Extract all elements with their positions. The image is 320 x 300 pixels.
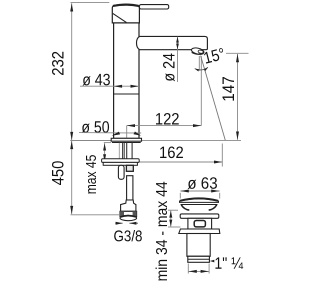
svg-text:min 34 - max 44: min 34 - max 44 [154,181,171,281]
dimension 147 line [236,54,239,140]
angle vertical reference [198,56,200,71]
dimension min34max44 line [169,211,172,227]
dimension 450 line [70,141,73,214]
G3/8 nut [120,211,137,220]
mounting nut [126,165,133,171]
lever handle bar [139,5,168,9]
lever joint diagonal [113,13,127,22]
dimension 1 1/4 extension lines [188,264,209,274]
dimension o43 leader and arrows [80,85,139,88]
dimension 1 1/4 line [188,270,209,273]
angle arc [195,67,208,71]
svg-text:122: 122 [155,110,180,128]
spout [137,36,208,49]
aerator extension line [200,56,202,126]
dimension 147 extension line [226,52,249,54]
hose connector collar [121,200,136,211]
dimension min34max44 extension lines [168,210,180,227]
drain lock nut [179,229,220,234]
drain tube [187,234,210,263]
G3/8 arrows [115,222,138,225]
faucet head cap [112,4,139,23]
dimension 122 line [127,124,202,127]
hose segment right [127,176,133,200]
drain body [188,218,212,229]
drain dome [180,198,219,204]
dimension 162 extension line right [221,144,223,167]
svg-text:ø 50: ø 50 [81,119,109,137]
base plate [111,138,141,142]
hose segment left [118,165,124,179]
svg-text:450: 450 [50,161,68,186]
deck line left [70,140,111,142]
dimension o50 leader and arrows [79,132,141,136]
svg-text:232: 232 [49,51,67,76]
dimension 450 extension line bottom [71,214,120,216]
label 1 1/4 arrow [210,260,215,263]
svg-text:1" ¼: 1" ¼ [214,255,243,273]
dimension 232 extension line top [71,2,110,4]
svg-text:162: 162 [159,144,184,162]
svg-text:G3/8: G3/8 [114,228,143,245]
dimension 232 line [70,3,73,140]
drain washer top [180,214,219,218]
drain neck flare [181,205,216,210]
svg-text:max 45: max 45 [83,155,100,195]
center extension line [126,126,128,138]
stream line 15deg [201,56,226,141]
dimension max45 line [103,143,106,161]
faucet body [114,23,139,139]
dimension o24 line [176,37,179,82]
overflow hole [194,221,205,227]
horseshoe washer [102,159,140,165]
mounting studs [119,143,132,159]
dimension o63 line [180,190,219,199]
svg-text:147: 147 [220,76,238,102]
dimension 162 line [105,161,223,164]
svg-text:ø 24: ø 24 [161,53,179,82]
aerator [191,47,205,56]
deck line right [142,139,242,141]
dimension max45 extension line [104,142,111,144]
